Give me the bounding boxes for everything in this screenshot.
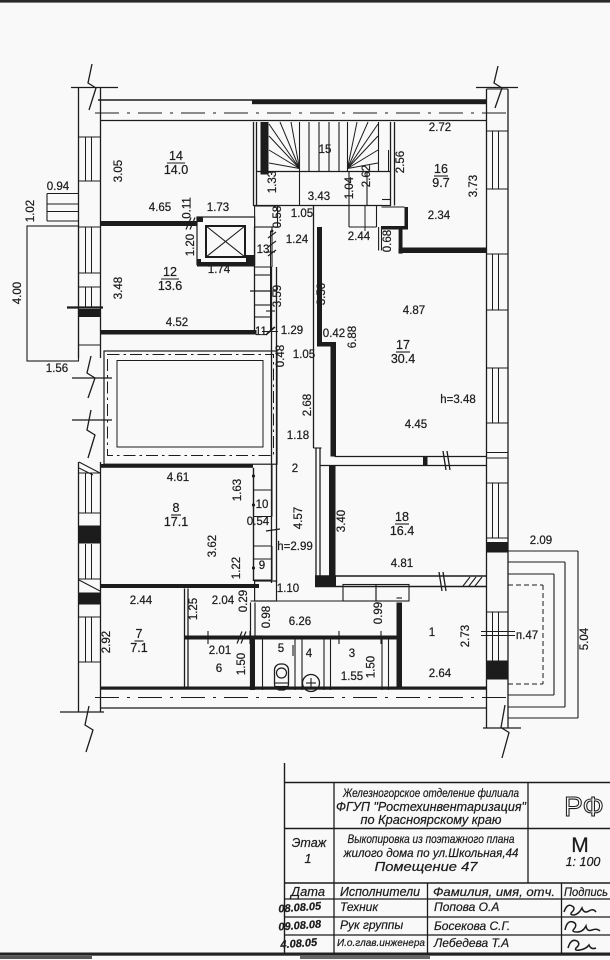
svg-text:3.05: 3.05 <box>113 160 125 182</box>
svg-text:6: 6 <box>216 663 222 675</box>
top-left wall break symbol <box>71 87 118 89</box>
stair mid line <box>254 205 383 207</box>
svg-text:2.64: 2.64 <box>429 668 452 680</box>
cell dividers under stairs <box>388 150 390 172</box>
dim tick at 11 <box>266 327 275 335</box>
partition rooms 5-4 <box>294 640 296 691</box>
bottom axis dash-dot <box>95 697 508 699</box>
room 18 bottom wall <box>315 575 487 577</box>
landing cell divider <box>299 172 301 206</box>
svg-text:жилого дома по ул.Школьная,44: жилого дома по ул.Школьная,44 <box>342 848 518 860</box>
room 1 left thick wall <box>397 603 403 687</box>
cell 13 dim line with ticks <box>271 227 273 267</box>
svg-text:3.73: 3.73 <box>468 175 480 197</box>
room 6 right wall <box>250 603 252 691</box>
svg-text:4.61: 4.61 <box>167 472 189 484</box>
stair right winder fan <box>348 124 379 169</box>
svg-text:9: 9 <box>259 560 265 572</box>
svg-text:8: 8 <box>173 501 180 515</box>
elevator shaft outer box <box>197 217 255 265</box>
toilet in room 5 <box>275 664 289 690</box>
svg-text:Исполнители: Исполнители <box>340 885 420 899</box>
hall wall above rooms 5-4-3 <box>185 636 403 640</box>
svg-text:2.04: 2.04 <box>212 595 235 607</box>
svg-text:1.02: 1.02 <box>25 200 37 222</box>
svg-text:3.48: 3.48 <box>113 277 125 299</box>
svg-text:3.59: 3.59 <box>272 285 284 307</box>
svg-text:по Красноярскому краю: по Красноярскому краю <box>361 813 503 827</box>
svg-text:0.11: 0.11 <box>182 197 194 219</box>
svg-text:1.10: 1.10 <box>277 583 299 595</box>
door slash room 12 top <box>186 218 191 230</box>
corridor jog line <box>314 447 322 449</box>
right exterior wall with windows <box>486 89 488 728</box>
svg-text:0.68: 0.68 <box>382 230 394 252</box>
svg-text:3.50: 3.50 <box>316 283 328 305</box>
stair left winder fan <box>269 124 300 169</box>
room 17 left wall <box>331 342 337 457</box>
svg-text:3.62: 3.62 <box>207 535 219 557</box>
top wall inner face line <box>101 120 487 122</box>
door slash rooms 17-18 <box>443 451 446 470</box>
room 16 bottom wall <box>399 248 487 254</box>
svg-text:1.22: 1.22 <box>231 557 243 579</box>
svg-text:1.55: 1.55 <box>341 671 363 683</box>
svg-text:4.65: 4.65 <box>149 202 171 214</box>
corridor step wall 0.42 <box>317 342 335 347</box>
elevator corner blocks <box>197 217 203 222</box>
svg-text:Помещение 47: Помещение 47 <box>375 860 479 874</box>
svg-text:4: 4 <box>306 648 313 660</box>
svg-text:2.62: 2.62 <box>361 165 373 187</box>
svg-text:Попова О.А: Попова О.А <box>434 900 499 914</box>
svg-text:ФГУП "Ростехинвентаризация": ФГУП "Ростехинвентаризация" <box>336 800 527 814</box>
bottom exterior wall <box>101 687 487 690</box>
left exterior wall upper with windows <box>78 88 80 358</box>
svg-text:Выкопировка из поэтажного план: Выкопировка из поэтажного плана <box>348 834 515 846</box>
svg-text:6.88: 6.88 <box>347 326 359 348</box>
svg-text:Лебедева Т.А: Лебедева Т.А <box>433 936 509 950</box>
closets below room 18 <box>343 585 376 602</box>
top exterior wall <box>98 99 487 101</box>
title block grid <box>284 763 286 954</box>
svg-text:2.01: 2.01 <box>209 645 231 657</box>
svg-text:9.7: 9.7 <box>432 176 449 190</box>
row3 signature <box>568 940 596 950</box>
left exterior wall lower with windows <box>78 462 80 712</box>
corridor right wall lower <box>315 448 317 583</box>
left wall dim tick <box>67 306 103 308</box>
svg-text:1: 100: 1: 100 <box>566 855 601 869</box>
svg-text:14.0: 14.0 <box>164 163 188 177</box>
svg-text:5.04: 5.04 <box>579 627 591 650</box>
svg-text:14: 14 <box>169 149 183 163</box>
room 8 top wall <box>101 464 254 468</box>
room 18 left wall <box>329 466 336 579</box>
svg-text:1: 1 <box>305 852 312 866</box>
svg-text:2.44: 2.44 <box>130 595 153 607</box>
row3 date <box>279 937 318 952</box>
row2 date <box>278 918 322 933</box>
wall below elevator <box>254 227 256 330</box>
svg-text:4.57: 4.57 <box>293 507 305 529</box>
wall between room 14 and 12 <box>101 221 198 226</box>
neighbour flat inner rect <box>117 361 263 448</box>
svg-text:1.29: 1.29 <box>281 325 303 337</box>
room 12 bottom wall <box>101 330 257 335</box>
svg-text:Фамилия, имя, отч.: Фамилия, имя, отч. <box>433 885 555 899</box>
svg-text:0.99: 0.99 <box>373 602 385 624</box>
room 8 bottom wall <box>101 584 260 588</box>
svg-text:5: 5 <box>278 643 284 655</box>
left balcony railing <box>47 193 78 195</box>
svg-text:7: 7 <box>136 627 143 641</box>
top-right wall break symbol <box>476 87 518 89</box>
svg-text:18: 18 <box>395 510 409 524</box>
left wall mid break 2 <box>72 419 112 421</box>
partition rooms 4-3 <box>323 640 325 691</box>
svg-text:1.50: 1.50 <box>236 653 248 675</box>
stair treads <box>308 122 310 172</box>
svg-text:Подпись: Подпись <box>564 885 608 899</box>
bottom-left wall break symbol <box>60 711 104 713</box>
svg-text:1.24: 1.24 <box>286 234 309 246</box>
svg-text:4.52: 4.52 <box>166 317 188 329</box>
small cell double wall <box>378 227 380 251</box>
svg-text:12: 12 <box>163 265 177 279</box>
svg-text:1.56: 1.56 <box>46 363 68 375</box>
svg-text:1.73: 1.73 <box>207 202 229 214</box>
svg-text:1.18: 1.18 <box>287 430 309 442</box>
svg-text:3.40: 3.40 <box>336 510 348 532</box>
svg-text:4.00: 4.00 <box>12 282 24 304</box>
svg-text:1.25: 1.25 <box>188 598 200 620</box>
svg-text:7.1: 7.1 <box>130 641 147 655</box>
partition rooms 7-6 <box>184 589 186 687</box>
room 16 left wall <box>390 122 392 206</box>
svg-text:3: 3 <box>349 648 355 660</box>
svg-text:1.20: 1.20 <box>185 234 197 256</box>
svg-text:Босекова С.Г.: Босекова С.Г. <box>434 919 510 933</box>
svg-text:h=3.48: h=3.48 <box>440 394 476 406</box>
door slash hall wall <box>237 632 242 644</box>
top wall axis dash-dot <box>95 112 508 114</box>
svg-text:16: 16 <box>434 162 448 176</box>
svg-text:6.26: 6.26 <box>289 616 311 628</box>
room 16 corner thick wall <box>399 228 403 254</box>
svg-text:0.94: 0.94 <box>47 181 70 193</box>
svg-text:1.05: 1.05 <box>293 349 315 361</box>
svg-text:2.92: 2.92 <box>101 631 113 653</box>
svg-text:Дата: Дата <box>289 885 325 899</box>
closet 10 box <box>254 489 273 491</box>
svg-text:2.09: 2.09 <box>530 535 552 547</box>
svg-text:п.47: п.47 <box>516 630 538 642</box>
svg-text:2.68: 2.68 <box>302 394 314 416</box>
svg-text:h=2.99: h=2.99 <box>277 541 313 553</box>
cell 0.58 box <box>255 206 278 227</box>
thick wall above 0.68 cell <box>381 226 408 230</box>
svg-text:17: 17 <box>396 338 410 352</box>
closet 9 box <box>254 545 273 547</box>
room 8 right boundary line <box>253 468 255 581</box>
svg-text:1.74: 1.74 <box>208 264 231 276</box>
svg-text:Железногорское отделение филиа: Железногорское отделение филиала <box>342 788 519 800</box>
svg-text:4.45: 4.45 <box>405 419 427 431</box>
svg-text:13.6: 13.6 <box>158 279 182 293</box>
svg-text:0.48: 0.48 <box>275 345 287 367</box>
svg-text:0.98: 0.98 <box>261 606 273 628</box>
corridor left wall <box>271 267 273 583</box>
page bottom scan strip <box>0 953 610 956</box>
corridor right black band <box>317 227 322 346</box>
svg-text:0.54: 0.54 <box>247 516 270 528</box>
svg-text:0.42: 0.42 <box>323 328 345 340</box>
stair landing line <box>257 171 391 173</box>
partition room 3 right <box>381 640 383 691</box>
stairwell left thick wall <box>261 122 269 175</box>
svg-text:16.4: 16.4 <box>390 524 414 538</box>
sink in room 4 <box>303 675 320 692</box>
svg-text:3.43: 3.43 <box>308 191 330 203</box>
svg-text:Рук группы: Рук группы <box>340 918 403 932</box>
corridor bottom end cell <box>255 581 277 601</box>
left wall mid break 1 <box>72 377 112 379</box>
п.47 threshold marks <box>481 631 515 633</box>
dim line 3.59 with ticks <box>270 231 272 331</box>
bottom-right wall break symbol <box>483 727 521 729</box>
svg-text:0.29: 0.29 <box>238 590 250 612</box>
page top edge strip <box>0 0 610 3</box>
svg-text:1.63: 1.63 <box>232 479 244 501</box>
neighbour flat axis dash-dot rect <box>108 355 274 456</box>
svg-text:2: 2 <box>292 463 298 475</box>
svg-text:2.56: 2.56 <box>395 151 407 173</box>
svg-text:1.50: 1.50 <box>366 656 378 678</box>
row2 signature <box>565 922 600 932</box>
right balcony п.47 railings <box>508 550 578 552</box>
svg-text:2.44: 2.44 <box>348 231 371 243</box>
svg-text:30.4: 30.4 <box>391 352 415 366</box>
door slash room 18 bottom <box>439 572 442 591</box>
svg-text:13: 13 <box>257 244 270 256</box>
room 17/18 divider wall <box>335 456 487 458</box>
svg-text:РФ: РФ <box>564 791 604 822</box>
svg-text:М: М <box>571 834 589 857</box>
stairwell left thin wall <box>253 122 255 206</box>
svg-text:Техник: Техник <box>340 900 379 914</box>
svg-text:1: 1 <box>429 627 435 639</box>
neighbour flat outline rect <box>104 351 277 464</box>
row1 date <box>278 900 322 915</box>
svg-text:1.33: 1.33 <box>267 171 279 193</box>
svg-text:0.58: 0.58 <box>272 206 284 228</box>
svg-text:10: 10 <box>256 499 269 511</box>
bottom facade line <box>101 707 487 709</box>
svg-text:2.72: 2.72 <box>429 122 451 134</box>
svg-text:17.1: 17.1 <box>164 515 188 529</box>
dim tick 0.54 <box>266 529 280 531</box>
svg-text:2.73: 2.73 <box>460 625 472 647</box>
svg-text:Этаж: Этаж <box>292 836 328 850</box>
svg-text:1.04: 1.04 <box>344 176 356 199</box>
elevator car box with X <box>206 226 245 257</box>
row1 signature <box>564 905 596 915</box>
svg-text:1.05: 1.05 <box>291 208 313 220</box>
svg-text:И.о.глав.инженера: И.о.глав.инженера <box>337 938 425 949</box>
left annex outline 4.00 <box>27 226 79 361</box>
svg-text:4.87: 4.87 <box>403 305 425 317</box>
svg-text:15: 15 <box>319 144 332 156</box>
svg-text:2.34: 2.34 <box>428 210 451 222</box>
hall top line <box>251 600 344 602</box>
corridor right wall upper <box>313 206 315 448</box>
svg-text:4.81: 4.81 <box>391 558 413 570</box>
